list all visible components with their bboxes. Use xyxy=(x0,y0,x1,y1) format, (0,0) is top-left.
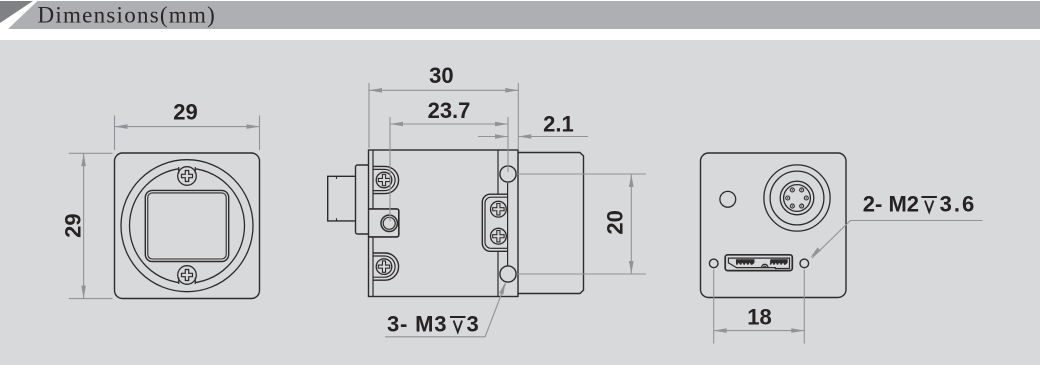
dim 18 line xyxy=(714,330,805,332)
barrel tick marks xyxy=(336,176,338,221)
svg-text:29: 29 xyxy=(173,100,197,125)
side right middle line xyxy=(507,183,509,266)
rear extension block xyxy=(518,153,584,294)
svg-text:2- M2: 2- M2 xyxy=(863,192,919,217)
lens barrel block xyxy=(328,176,356,221)
side middle hole inner xyxy=(383,217,395,229)
svg-text:3- M3: 3- M3 xyxy=(387,312,447,337)
front bottom screw cross xyxy=(182,270,193,281)
leader M3 xyxy=(385,284,506,337)
dim 18 ext lines xyxy=(714,270,805,344)
svg-text:20: 20 xyxy=(603,210,628,234)
dim 2.1 left line xyxy=(478,136,508,138)
front body square xyxy=(115,153,260,299)
dim 2.1 arrows xyxy=(495,134,508,139)
svg-text:30: 30 xyxy=(429,63,453,88)
side left top screw xyxy=(376,172,392,188)
dim 29 horizontal line xyxy=(115,126,260,128)
USB middle arch xyxy=(762,264,769,267)
dim 23.7 line xyxy=(390,123,508,125)
side left top screw boss xyxy=(373,166,399,193)
side middle hole outer xyxy=(381,215,397,231)
side inner left panel line xyxy=(372,150,374,297)
dim 30 line xyxy=(369,89,518,91)
M2 hole right xyxy=(800,259,809,268)
dim 29 vertical ext lines xyxy=(69,153,113,298)
leader M2 arrowhead xyxy=(811,248,821,258)
side middle notch xyxy=(369,209,399,237)
header dark triangle xyxy=(0,1,33,23)
sensor window inner xyxy=(148,193,226,259)
side right plate screws xyxy=(491,201,507,217)
side main body xyxy=(369,150,519,297)
USB inner outline xyxy=(728,258,789,268)
svg-text:29: 29 xyxy=(61,213,86,237)
M3 hole bottom xyxy=(500,266,516,282)
side left bottom screw boss xyxy=(373,253,399,280)
connector pins xyxy=(786,188,809,208)
M2 hole left xyxy=(709,259,718,268)
side right plate xyxy=(482,194,507,251)
dim 30 ext lines xyxy=(369,83,518,150)
header white slash xyxy=(0,1,38,29)
USB outer shell xyxy=(725,255,792,271)
dim 29 arrows xyxy=(115,124,128,129)
svg-text:23.7: 23.7 xyxy=(428,98,471,123)
front top screw cross xyxy=(182,171,193,182)
leader M3 arrowhead xyxy=(499,282,505,294)
dim 20 arrows xyxy=(629,174,634,187)
back body square xyxy=(701,153,847,298)
dim 20 line xyxy=(630,174,632,274)
lens mount outer circle xyxy=(121,160,253,292)
lens mount inner circle xyxy=(130,168,245,283)
svg-text:3.6: 3.6 xyxy=(940,192,977,217)
dim 18 arrows xyxy=(714,328,727,333)
USB right comb xyxy=(770,259,788,265)
side left bottom screw xyxy=(376,259,392,275)
front bottom screw tab xyxy=(179,278,196,285)
dim 20 ext lines xyxy=(517,174,646,274)
depth symbol for M2 label xyxy=(921,197,937,212)
front bottom screw tab erase xyxy=(179,279,194,287)
front bottom screw circle xyxy=(178,266,197,285)
svg-text:18: 18 xyxy=(747,305,771,330)
leader M2 xyxy=(812,221,983,259)
dim 29 horizontal ext lines xyxy=(115,116,260,151)
dim 23.7 ext lines xyxy=(390,117,508,221)
sensor window outer xyxy=(145,190,228,261)
side right column line xyxy=(497,150,499,297)
svg-text:3: 3 xyxy=(467,312,479,337)
power connector outer xyxy=(764,165,830,231)
depth symbol for M3 label xyxy=(450,317,466,332)
front top screw tab erase xyxy=(179,164,194,172)
dim 30 arrows xyxy=(369,88,382,93)
back small hole xyxy=(720,191,736,207)
front top screw tab xyxy=(179,167,196,174)
dim 23.7 arrows xyxy=(390,122,403,127)
lens flange block xyxy=(356,165,369,234)
arrowheads xyxy=(81,88,820,333)
front top screw circle xyxy=(178,167,197,186)
svg-text:2.1: 2.1 xyxy=(543,112,574,137)
svg-text:Dimensions(mm): Dimensions(mm) xyxy=(38,3,217,28)
M3 hole top xyxy=(500,166,516,182)
dim 2.1 right line xyxy=(518,136,588,138)
dim 29 vertical line xyxy=(83,153,85,298)
USB left comb xyxy=(736,259,755,265)
header bar xyxy=(0,1,1040,29)
